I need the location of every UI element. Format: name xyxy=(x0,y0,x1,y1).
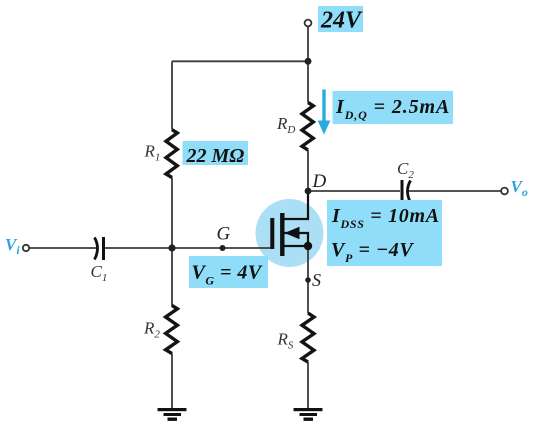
label 22 MΩ xyxy=(183,141,249,167)
svg-text:C2: C2 xyxy=(397,159,414,181)
wire: top junction down to RD xyxy=(307,61,309,102)
capacitor C1 xyxy=(95,237,104,260)
svg-text:RD: RD xyxy=(276,114,295,136)
transistor Q1 (depletion MOSFET symbol) xyxy=(272,191,308,256)
wire: RD to drain node D xyxy=(307,150,309,191)
wire: R2 to left ground xyxy=(171,354,173,410)
resistor R1 xyxy=(166,130,177,178)
svg-text:24V: 24V xyxy=(320,8,363,34)
wire: gate junction down to R2 xyxy=(171,248,173,306)
wire: top horizontal from left branch to supply node xyxy=(172,60,308,62)
label IDQ = 2.5mA xyxy=(333,91,454,124)
output terminal circle Vo xyxy=(501,188,508,195)
junction dot at drain node D xyxy=(305,188,312,195)
svg-text:D: D xyxy=(312,171,327,192)
svg-text:R2: R2 xyxy=(143,319,160,341)
wire: C1 to gate bar of transistor xyxy=(105,247,271,249)
transistor highlight circle xyxy=(256,199,324,267)
svg-text:Vo: Vo xyxy=(511,177,528,199)
wire: source junction down to RS xyxy=(307,246,309,313)
junction dot at transistor source lead xyxy=(304,242,312,250)
current arrow IDQ xyxy=(318,90,331,135)
capacitor C2 xyxy=(402,180,411,203)
label VG = 4V xyxy=(189,256,268,288)
resistor RD xyxy=(302,103,313,151)
wire: left vertical top to R1 xyxy=(171,61,173,129)
svg-text:G: G xyxy=(217,224,231,245)
label IDSS and VP box xyxy=(327,200,442,266)
resistor R2 xyxy=(166,306,178,354)
ground (right) xyxy=(294,408,323,421)
svg-text:Vi: Vi xyxy=(5,235,20,257)
svg-text:RS: RS xyxy=(277,330,294,352)
wire: C2 to output terminal xyxy=(407,190,502,192)
svg-text:S: S xyxy=(312,270,321,290)
supply terminal circle 24V xyxy=(305,20,312,27)
svg-text:R1: R1 xyxy=(144,142,161,164)
svg-text:C1: C1 xyxy=(91,262,108,284)
node dot G xyxy=(220,245,226,251)
label 24V xyxy=(318,6,363,34)
input terminal circle Vi xyxy=(23,245,29,251)
ground (left) xyxy=(158,408,187,421)
wire: input terminal to C1 xyxy=(29,247,96,249)
junction dot at gate junction xyxy=(168,244,175,251)
junction dot at top supply node xyxy=(305,58,312,65)
wire: supply terminal to top junction xyxy=(307,27,309,62)
wire: RS to right ground xyxy=(307,362,309,409)
wire: R1 to gate junction xyxy=(171,178,173,249)
node dot S xyxy=(305,277,311,283)
svg-text:22 MΩ: 22 MΩ xyxy=(186,145,245,167)
resistor RS xyxy=(302,313,314,362)
wire: drain node D to C2 xyxy=(308,190,400,192)
